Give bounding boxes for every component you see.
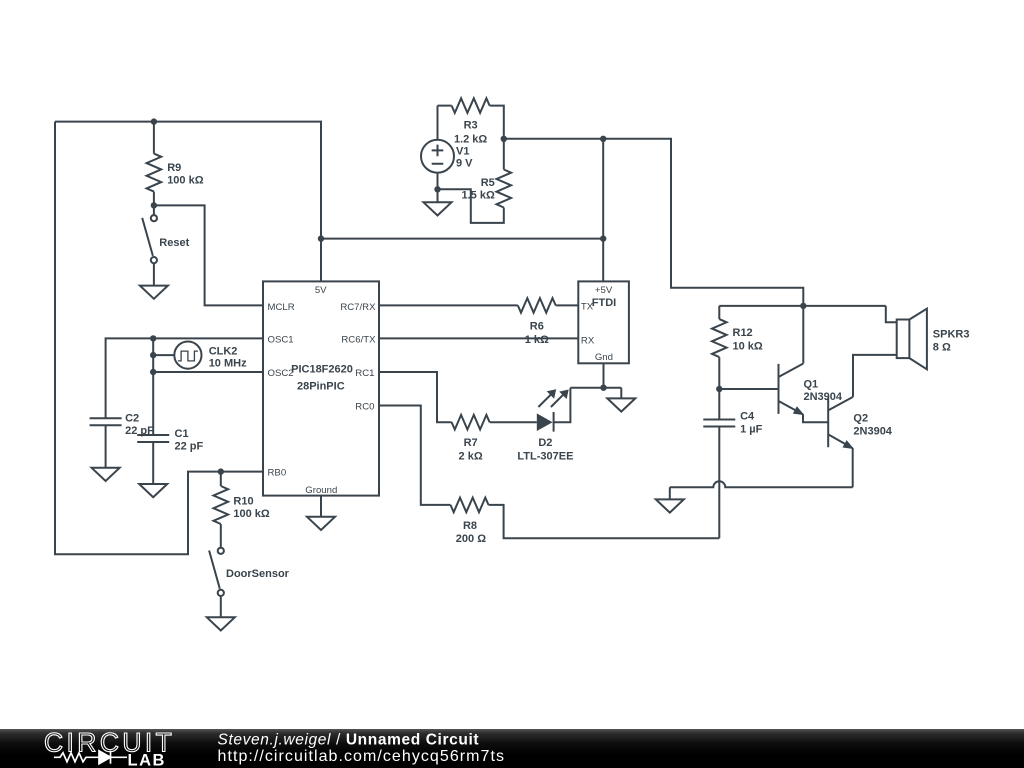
capacitor C1	[137, 435, 169, 484]
label Q2	[853, 412, 892, 437]
svg-text:Ground: Ground	[305, 485, 337, 496]
footer title	[218, 732, 506, 766]
svg-text:2N3904: 2N3904	[853, 425, 892, 437]
switch Reset	[142, 205, 157, 285]
label D2	[517, 437, 573, 463]
wire OSC1	[106, 338, 263, 418]
label R5	[462, 177, 495, 202]
logo CIRCUIT LAB	[44, 728, 175, 768]
pin labels IC	[268, 285, 377, 496]
svg-text:200 Ω: 200 Ω	[456, 533, 486, 545]
svg-text:1.5 kΩ: 1.5 kΩ	[462, 190, 495, 202]
svg-text:9 V: 9 V	[456, 158, 473, 170]
label C2	[125, 413, 154, 437]
svg-text:100 kΩ: 100 kΩ	[233, 508, 270, 520]
svg-text:10 MHz: 10 MHz	[209, 358, 247, 370]
svg-text:PIC18F2620: PIC18F2620	[291, 363, 353, 375]
label SPKR3	[933, 329, 970, 354]
wire RC0 to R8	[379, 406, 451, 505]
ground under FTDI	[607, 398, 635, 411]
transistor Q2	[828, 355, 897, 487]
svg-text:LTL-307EE: LTL-307EE	[517, 450, 573, 462]
svg-text:http://circuitlab.com/cehycq56: http://circuitlab.com/cehycq56rm7ts	[218, 748, 506, 765]
label CLK2	[209, 346, 247, 370]
label DoorSensor	[226, 568, 290, 580]
svg-text:100 kΩ: 100 kΩ	[167, 175, 204, 187]
svg-text:DoorSensor: DoorSensor	[226, 568, 290, 580]
label R12	[733, 327, 763, 352]
wire MCLR	[154, 205, 263, 305]
svg-text:RB0: RB0	[268, 468, 287, 479]
wire collector rail y=305.9	[719, 305, 886, 307]
wire OSC2	[153, 371, 263, 373]
svg-text:R3: R3	[464, 120, 478, 132]
svg-text:CLK2: CLK2	[209, 346, 238, 358]
svg-text:2 kΩ: 2 kΩ	[459, 450, 483, 462]
svg-text:Steven.j.weigel / Unnamed Circ: Steven.j.weigel / Unnamed Circuit	[218, 732, 480, 749]
ground near Q2	[656, 499, 684, 512]
svg-text:+5V: +5V	[595, 285, 613, 296]
ground under Reset	[140, 286, 168, 299]
LED D2	[537, 388, 571, 432]
svg-text:RC6/TX: RC6/TX	[341, 334, 376, 345]
wire top 5V rail and left drop to RB0	[55, 122, 321, 555]
transistor Q1	[779, 306, 829, 422]
svg-text:C2: C2	[125, 413, 139, 425]
svg-text:C1: C1	[175, 428, 189, 440]
svg-text:R12: R12	[733, 327, 753, 339]
svg-text:R7: R7	[464, 437, 478, 449]
speaker SPKR3	[886, 306, 927, 369]
label C1	[175, 428, 204, 452]
svg-text:D2: D2	[538, 437, 552, 449]
wire emitter ground with hop	[670, 481, 853, 499]
pin labels FTDI	[581, 285, 613, 363]
svg-text:C4: C4	[740, 410, 755, 422]
label R7	[459, 437, 483, 463]
resistor R8	[451, 498, 720, 539]
IC U2 FTDI box	[578, 281, 629, 363]
resistor R6	[379, 298, 578, 313]
label R10	[233, 496, 270, 520]
ground under DoorSensor	[207, 617, 235, 630]
wire FTDI gnd node	[570, 363, 621, 398]
capacitor C4	[703, 389, 735, 538]
resistor R9	[147, 122, 162, 206]
wire RC1 to R7	[379, 372, 452, 422]
svg-text:SPKR3: SPKR3	[933, 329, 970, 341]
footer bar	[0, 729, 1024, 768]
svg-text:Gnd: Gnd	[595, 352, 613, 363]
svg-text:Q2: Q2	[853, 412, 868, 424]
wire top-right net	[504, 139, 804, 306]
svg-text:22 pF: 22 pF	[125, 425, 154, 437]
label C4	[740, 410, 763, 435]
svg-text:OSC2: OSC2	[268, 368, 294, 379]
label FTDI	[592, 297, 616, 309]
label R3	[454, 120, 487, 146]
ground under C1	[139, 484, 167, 497]
svg-text:RC0: RC0	[355, 401, 374, 412]
svg-text:R6: R6	[530, 320, 544, 332]
label R9	[167, 162, 204, 187]
label Q1	[804, 379, 843, 403]
ground under IC	[307, 517, 335, 530]
IC U1 PIC18F2620 box	[263, 281, 379, 495]
wire mid 5V link y=238.6	[321, 238, 603, 240]
oscillator CLK2	[153, 342, 201, 369]
ground under V1	[424, 202, 452, 215]
svg-text:R9: R9	[167, 162, 181, 174]
svg-text:22 pF: 22 pF	[175, 441, 204, 453]
resistor R10	[214, 472, 229, 548]
svg-text:1 kΩ: 1 kΩ	[525, 334, 549, 346]
svg-text:RX: RX	[581, 335, 595, 346]
label V1	[456, 145, 473, 169]
svg-text:1.2 kΩ: 1.2 kΩ	[454, 134, 487, 146]
svg-text:8 Ω: 8 Ω	[933, 341, 951, 353]
svg-text:1 µF: 1 µF	[740, 424, 763, 436]
wire OSC node vertical	[152, 338, 154, 435]
capacitor C2	[90, 418, 122, 468]
wire Q1 base	[719, 388, 778, 390]
svg-text:TX: TX	[581, 302, 594, 313]
svg-text:R10: R10	[233, 496, 253, 508]
svg-text:V1: V1	[456, 145, 469, 157]
svg-text:R8: R8	[463, 520, 477, 532]
resistor R5	[438, 139, 512, 223]
resistor R3	[438, 98, 504, 139]
svg-text:28PinPIC: 28PinPIC	[297, 381, 345, 393]
wire FTDI 5V vertical	[602, 139, 604, 282]
resistor R12	[712, 306, 727, 389]
svg-text:Q1: Q1	[804, 379, 819, 391]
label Reset	[159, 237, 189, 249]
svg-text:5V: 5V	[315, 285, 327, 296]
svg-text:FTDI: FTDI	[592, 297, 616, 309]
svg-text:OSC1: OSC1	[268, 334, 294, 345]
label PIC18F2620 28PinPIC	[291, 363, 353, 392]
svg-text:LAB: LAB	[128, 752, 166, 768]
svg-text:R5: R5	[481, 177, 495, 189]
svg-text:Reset: Reset	[159, 237, 189, 249]
node dots	[150, 118, 807, 474]
svg-text:2N3904: 2N3904	[804, 391, 843, 403]
svg-text:MCLR: MCLR	[268, 302, 295, 313]
svg-text:10 kΩ: 10 kΩ	[733, 340, 763, 352]
svg-text:RC7/RX: RC7/RX	[340, 302, 376, 313]
switch DoorSensor	[209, 548, 224, 618]
wire IC ground pin	[320, 496, 322, 517]
svg-text:RC1: RC1	[355, 368, 374, 379]
label R6	[525, 320, 549, 346]
wire RC6/TX to FTDI RX	[379, 337, 578, 339]
resistor R7	[452, 415, 537, 430]
label R8	[456, 520, 486, 545]
ground under C2	[92, 468, 120, 481]
voltage source V1	[421, 106, 454, 203]
